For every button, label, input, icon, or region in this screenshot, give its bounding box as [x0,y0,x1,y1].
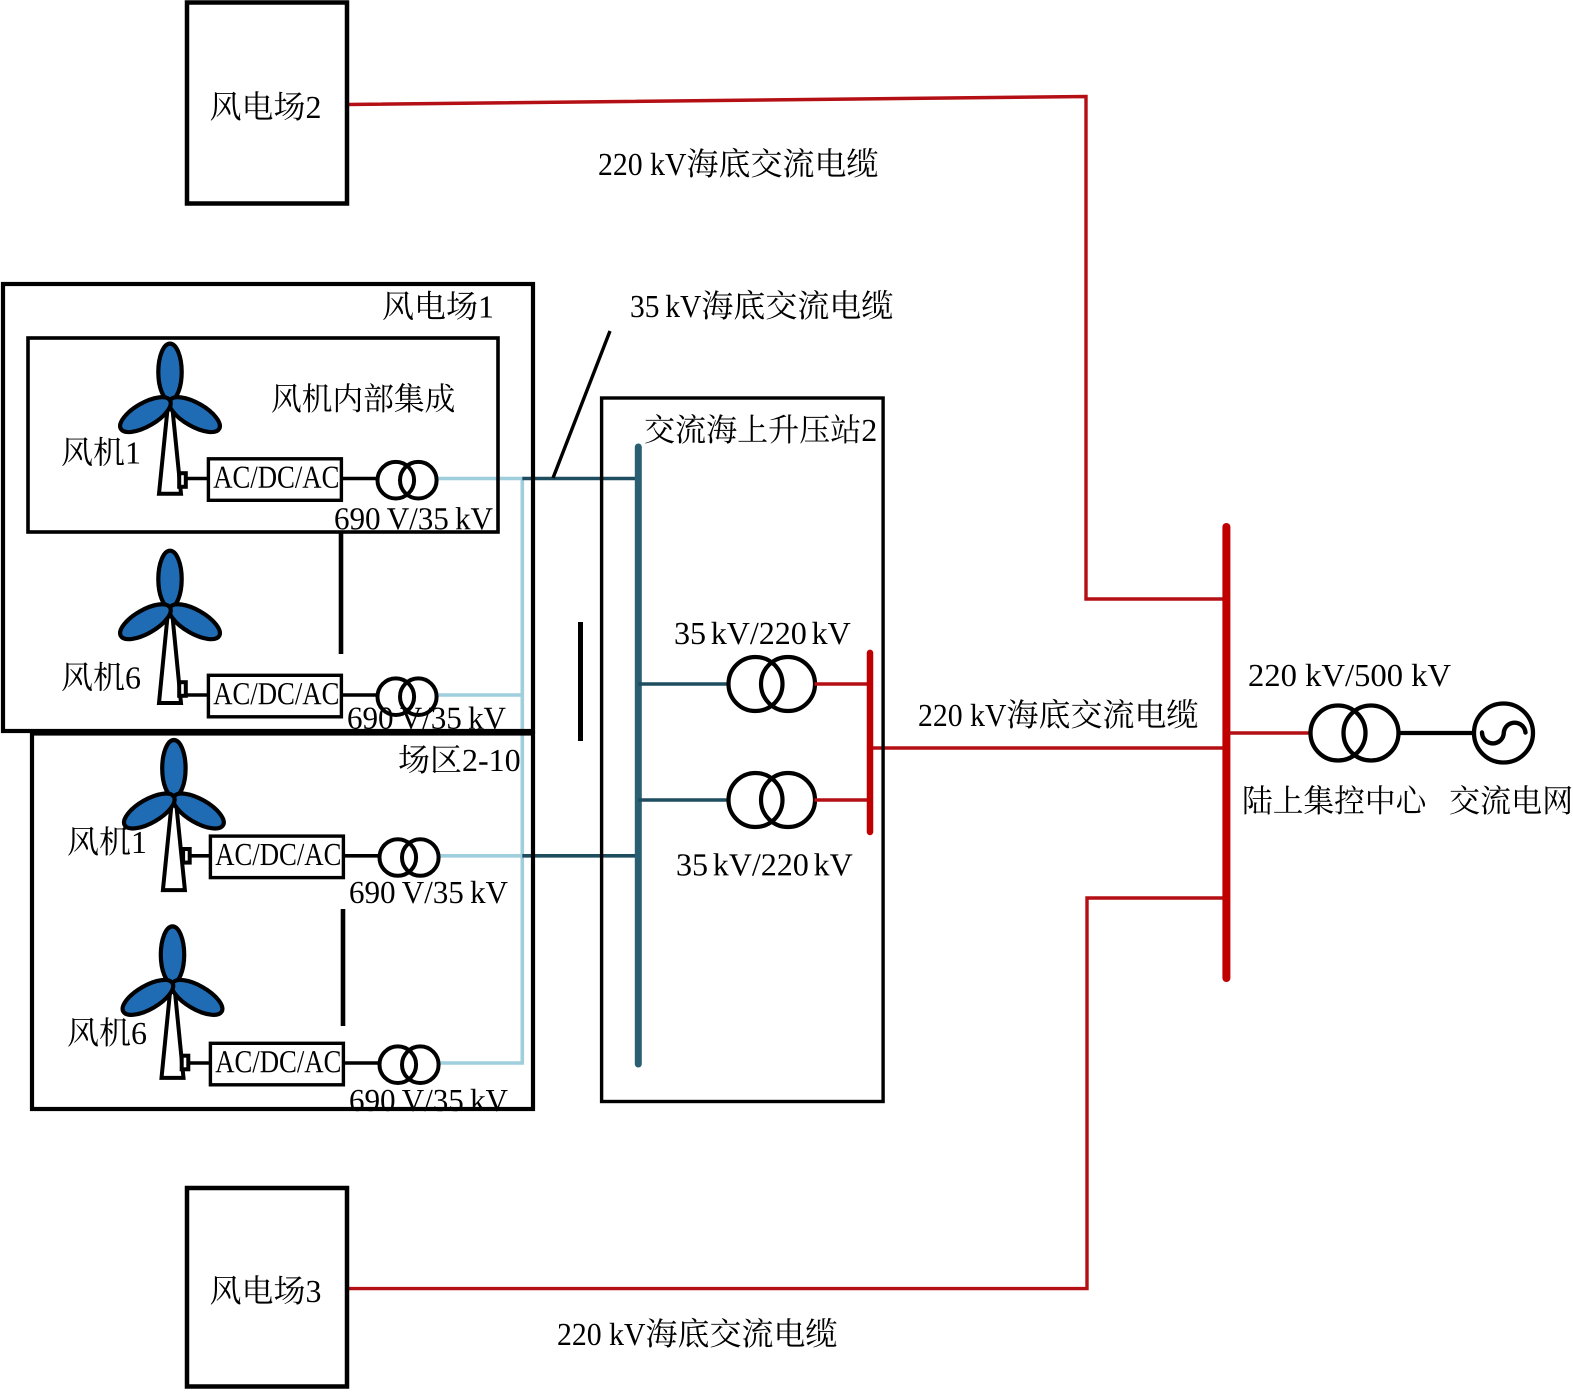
label 690 V/35 kV (row 2) [348,707,505,730]
wind turbine T6 (风机6, 场区2-10): tower [162,983,184,1078]
cable: 35kV from T1 row3 (light blue) [440,854,524,858]
wire: turbine to AC/DC/AC converter [185,693,208,697]
label 交流电网 [1450,785,1571,815]
cable: 35kV submarine AC to substation bus (teal, upper) [522,477,637,481]
label 风机6 (wind farm 1) [62,662,140,691]
wire: transformer to AC grid [1399,731,1475,735]
transformer A 35kV/220kV [729,657,816,711]
label 690 V/35 kV (row 3) [350,881,507,904]
label 交流海上升压站2 [645,414,875,444]
transformer B 35kV/220kV [729,773,816,827]
converter box AC/DC/AC (row 4) [210,1043,343,1085]
label 690 V/35 kV (row 4) [350,1089,507,1112]
cable: 35kV submarine AC to substation bus (teal, lower) [522,854,637,858]
wire: 35kV bus to transformer B (teal) [638,798,729,802]
wire: 220kV submarine AC cable from wind farm 2 (red) [347,97,1224,600]
transformer 690V/35kV (row 1) [378,462,437,499]
wind turbine T1 (风机1, wind farm 1): tower [159,400,181,493]
wire: turbine to AC/DC/AC converter [188,1061,211,1065]
label 690 V/35 kV (row 1) [335,507,492,530]
transformer 690V/35kV (row 4) [380,1046,439,1083]
bus stub: turbine string continuation (场区2-10) [341,909,346,1026]
cable: 35kV from T6 row2 (light blue) [438,693,524,697]
wire: 220kV submarine AC cable from wind farm 3 (red) [347,898,1224,1289]
wind turbine T1 (风机1, 场区2-10): tower [163,797,185,890]
label 风电场3 [211,1275,321,1305]
wind turbine T1 (风机1, wind farm 1): nacelle connection box [179,473,186,487]
label 35 kV/220 kV (lower) [678,853,853,876]
wire: transformer A to 220kV bus (red) [815,682,869,685]
wind turbine T6 (风机6, 场区2-10): nacelle connection box [182,1056,189,1070]
bus stub: turbine string continuation (wind farm 1) [339,532,344,654]
AC grid sine wave [1482,723,1526,744]
bus: substation 220kV bus (red vertical) [867,653,874,832]
wind turbine T6 (风机6, wind farm 1): tower [159,608,181,704]
bus: 35kV substation bus (teal vertical) [635,447,642,1064]
wind turbine T1 (风机1, 场区2-10): rotor blades [119,740,229,835]
wind turbine T6 (风机6, wind farm 1): rotor blades [115,551,225,646]
label: 220 kV海底交流电缆 (middle) [919,699,1197,729]
label: 220 kV海底交流电缆 (top) [599,148,877,178]
wire: converter to transformer [343,1061,378,1065]
label 风机1 (场区2-10) [68,826,145,855]
box: cluster 2-10 (场区2-10) [32,734,533,1110]
box: wind farm 3 (风电场3) [187,1188,347,1387]
converter box AC/DC/AC (row 3) [210,836,343,878]
label 风电场2 [211,91,320,121]
box: turbine internal integration (风机内部集成) [28,338,498,532]
label 35 kV/220 kV (upper) [676,622,851,645]
wire: transformer B to 220kV bus (red) [815,798,869,801]
wind turbine T6 (风机6, wind farm 1): nacelle connection box [179,682,186,696]
box: wind farm 2 (风电场2) [187,3,347,204]
cable: 35kV collector riser (light blue vertical) [520,479,524,1064]
label: 35 kV海底交流电缆 [631,290,892,320]
label 陆上集控中心 [1245,785,1426,815]
wire: turbine to AC/DC/AC converter [189,854,211,858]
wire: turbine to AC/DC/AC converter [185,477,208,481]
cable: 220kV submarine AC substation to shore (red) [871,746,1224,749]
box: wind farm 1 (风电场1) [3,284,533,731]
transformer 690V/35kV (row 2) [378,678,437,715]
label 220 kV/500 kV [1249,664,1450,687]
wire: converter to transformer [341,477,376,481]
transformer 690V/35kV (row 3) [380,839,439,876]
label 风机内部集成 [272,383,454,413]
label 场区2-10 [399,745,519,774]
label pointer line: 35kV cable callout [553,331,610,478]
wire: converter to transformer [343,854,378,858]
converter box AC/DC/AC (row 2) [208,675,341,717]
wind turbine T1 (风机1, 场区2-10): nacelle connection box [183,849,190,863]
label 风机1 (wind farm 1) [62,437,139,466]
box: offshore AC step-up substation 2 (交流海上升压站2) [602,398,884,1102]
wind turbine T1 (风机1, wind farm 1): rotor blades [115,344,225,439]
cable: 35kV from T1 row1 (light blue) [438,477,524,481]
converter box AC/DC/AC (row 1) [208,459,341,501]
separator mark between wind farm boxes and substation [578,622,583,741]
transformer 220kV/500kV [1311,706,1399,761]
cable: 35kV from T6 row4 (light blue) [440,1061,524,1065]
wind turbine T6 (风机6, 场区2-10): rotor blades [117,926,227,1021]
wire: onshore bus to 220kV/500kV transformer (red) [1229,731,1311,734]
label 风电场1 [383,291,492,321]
AC grid source symbol [1474,704,1533,763]
bus: onshore 220kV bus (red vertical, thick) [1222,527,1230,978]
wire: converter to transformer [341,693,376,697]
label 风机6 (场区2-10) [68,1017,146,1046]
label: 220 kV海底交流电缆 (bottom) [558,1318,836,1348]
wire: 35kV bus to transformer A (teal) [638,682,729,686]
